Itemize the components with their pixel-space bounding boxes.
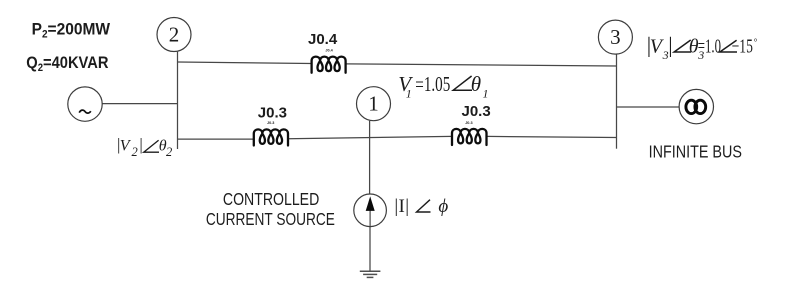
inductor L23 J0.4 coil <box>312 57 346 73</box>
svg-text:J0.3: J0.3 <box>462 103 491 120</box>
generator G1 circle <box>68 87 102 121</box>
wire: bottom bus line segment 3 (right J0.3 to bus3) <box>487 136 617 137</box>
svg-text:Q2=40KVAR: Q2=40KVAR <box>26 54 109 74</box>
inductor L13 J0.3 right coil <box>452 129 487 145</box>
svg-text:=1.05: =1.05 <box>415 72 450 95</box>
svg-text:|: | <box>668 33 672 58</box>
svg-text:J0.3: J0.3 <box>267 121 274 125</box>
svg-text:=1.0: =1.0 <box>698 34 721 57</box>
infinity symbol left loop <box>686 100 697 113</box>
svg-text:2: 2 <box>166 145 172 159</box>
svg-text:1: 1 <box>368 92 379 116</box>
ground symbol <box>360 271 381 277</box>
svg-text:CONTROLLED: CONTROLLED <box>223 191 319 210</box>
svg-text:I: I <box>399 196 405 217</box>
infinite bus circle <box>679 89 713 123</box>
wire: top bus line right segment (J0.4 to bus3) <box>346 64 617 66</box>
wire: bottom bus line segment 2 (left J0.3 to right J0.3) <box>288 136 452 138</box>
inductor L21 J0.3 left coil <box>254 129 288 145</box>
wire: top bus line left segment (bus2 to J0.4) <box>178 62 312 64</box>
label Q2=40KVAR <box>26 54 109 74</box>
svg-text:ϕ: ϕ <box>438 196 448 217</box>
current source arrow stem <box>369 210 371 226</box>
svg-text:°: ° <box>754 37 758 48</box>
svg-text:V: V <box>120 138 132 155</box>
svg-text:|: | <box>405 196 409 217</box>
svg-text:J0.3: J0.3 <box>258 105 287 122</box>
svg-text:−15: −15 <box>732 35 753 57</box>
svg-text:J0.3: J0.3 <box>465 121 472 125</box>
label |V2| angle theta2 <box>117 135 172 159</box>
label |I| angle phi <box>394 196 448 217</box>
svg-text:1: 1 <box>483 87 489 101</box>
wire: current source to ground <box>369 227 371 271</box>
svg-text:3: 3 <box>610 25 621 49</box>
label INFINITE BUS <box>649 143 742 162</box>
svg-text:2: 2 <box>169 23 180 47</box>
node bus 3 circle <box>598 20 632 54</box>
svg-text:1: 1 <box>406 87 412 101</box>
svg-text:2: 2 <box>132 145 138 159</box>
current source I1 circle <box>354 194 387 227</box>
svg-text:|: | <box>139 135 142 154</box>
wire: bus 3 vertical drop <box>616 54 618 149</box>
svg-text:J0.4: J0.4 <box>325 48 333 52</box>
infinity symbol right loop <box>695 100 706 113</box>
current source arrow head <box>366 196 375 211</box>
svg-text:INFINITE BUS: INFINITE BUS <box>649 143 742 162</box>
wire: bottom bus line segment 1 (bus2 to left J0.3) <box>178 138 254 140</box>
label P2=200MW <box>32 20 111 41</box>
label |V3| angle theta3 = 1.0 angle -15deg <box>647 33 758 62</box>
node bus 2 circle <box>157 18 191 52</box>
label CURRENT SOURCE <box>206 211 335 230</box>
svg-text:θ: θ <box>471 72 481 96</box>
svg-text:J0.4: J0.4 <box>308 31 338 48</box>
svg-text:CURRENT SOURCE: CURRENT SOURCE <box>206 211 335 230</box>
generator tilde symbol <box>79 110 91 113</box>
svg-text:P2=200MW: P2=200MW <box>32 20 111 41</box>
wire: bus 2 vertical drop <box>177 52 179 149</box>
wire: bus 3 to infinite bus lead <box>617 106 680 108</box>
wire: generator lead to bus2 vertical <box>102 103 178 105</box>
label CONTROLLED <box>223 191 319 210</box>
label V1=1.05 angle theta1 <box>398 72 488 101</box>
wire: bus 1 vertical drop to current source <box>369 121 371 194</box>
node bus 1 circle <box>357 87 391 121</box>
